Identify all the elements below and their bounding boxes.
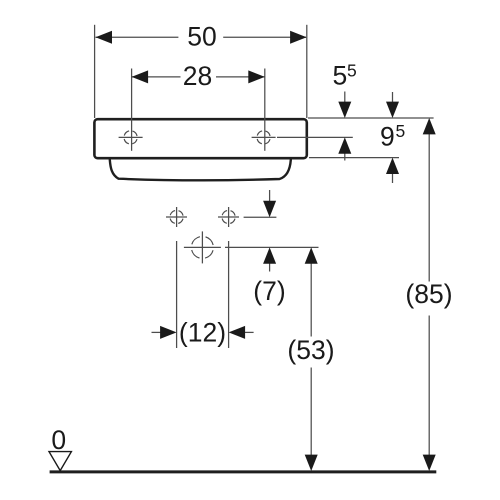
dim 12 leader right (244, 331, 253, 333)
dashed hole circles (124, 131, 270, 259)
overflow hole left cross (166, 216, 187, 218)
overflow hole left circle (170, 210, 183, 223)
dim 12 extension line left (176, 241, 178, 348)
drain hole cross vertical (201, 231, 203, 263)
ground line (50, 470, 437, 473)
svg-text:28: 28 (183, 61, 212, 91)
dim 85 arrow down (423, 455, 436, 471)
line bottom of basin extended right (309, 157, 399, 159)
line top of basin extended right (308, 117, 434, 119)
dim 28 line (132, 76, 181, 78)
svg-text:(53): (53) (287, 335, 334, 365)
washbasin skirt (110, 160, 291, 181)
dim 53 arrow up (305, 247, 318, 263)
drain hole circle (191, 236, 213, 258)
line through tap holes extended right (277, 136, 353, 138)
washbasin body (94, 119, 306, 180)
svg-text:0: 0 (51, 425, 66, 455)
svg-text:5: 5 (396, 121, 406, 141)
dim 50 extension line right (306, 25, 308, 118)
tap hole right cross (252, 136, 276, 138)
svg-text:5: 5 (333, 61, 348, 91)
tap hole right circle (257, 131, 270, 144)
dim 53 arrow down (305, 455, 318, 471)
dim 28 arrow left (132, 70, 149, 83)
dim 7 arrow up (263, 247, 276, 263)
dim 85 vertical line (428, 133, 430, 282)
dim 12 arrow right-pointing (160, 326, 177, 339)
datum triangle (49, 452, 71, 471)
dim 7 arrow down (263, 201, 276, 217)
dim 50 extension line left (94, 25, 96, 118)
overflow hole right circle (222, 210, 235, 223)
dim 12 leader left (152, 331, 162, 333)
svg-text:(85): (85) (405, 279, 452, 309)
thin lines group (95, 25, 434, 457)
svg-text:5: 5 (347, 61, 357, 81)
arrowheads (96, 31, 436, 471)
dim 28 extension line left (131, 69, 133, 151)
svg-text:50: 50 (187, 22, 216, 52)
dim 50 arrow right (290, 31, 307, 44)
dim 7 upper line (244, 216, 277, 218)
tap hole left cross (119, 136, 143, 138)
svg-text:9: 9 (380, 121, 395, 151)
dim 9.5 arrow stems (392, 92, 394, 103)
dim 12 extension line right (228, 241, 230, 348)
drain hole cross horizontal (184, 246, 221, 248)
drain line horizontal (225, 246, 319, 248)
svg-text:(12): (12) (179, 318, 226, 348)
overflow hole right cross (218, 216, 239, 218)
svg-text:(7): (7) (253, 276, 285, 306)
dim 53 vertical line (310, 262, 312, 337)
dim 5.5 arrow up (338, 137, 351, 153)
dim 7 arrow stems (269, 190, 271, 202)
dim 12 arrow left-pointing (229, 326, 246, 339)
dim 28 extension line right (264, 69, 266, 151)
dim 28 arrow right (248, 70, 264, 83)
tap hole left circle (124, 131, 137, 144)
dim 50 line (96, 36, 179, 38)
dim 85 arrow up (423, 118, 436, 134)
dim 9.5 arrow down (386, 102, 399, 118)
dim 9.5 arrow up (386, 158, 399, 174)
dim 50 arrow left (96, 31, 113, 44)
dim 5.5 arrow down (338, 102, 351, 118)
dim 5.5 arrow stems (344, 92, 346, 104)
